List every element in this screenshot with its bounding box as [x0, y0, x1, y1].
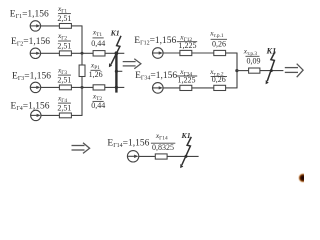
short-circuit lightning arrow K1 — [182, 137, 192, 165]
svg-text:1,225: 1,225 — [179, 41, 197, 50]
EMF source E_Г2 (circle with arrow) — [30, 48, 40, 58]
EMF source E_Г3 (circle with arrow) — [30, 82, 40, 92]
decorative blob bottom-right — [299, 174, 308, 183]
wire rail (middle circuit) — [236, 53, 238, 88]
wire — [105, 86, 125, 88]
resistor x_Г14 — [155, 154, 167, 159]
wire — [41, 114, 83, 116]
wire — [260, 70, 284, 72]
svg-text:EГ3=1,156: EГ3=1,156 — [12, 72, 51, 83]
short-circuit lightning arrow K1 — [111, 36, 121, 65]
svg-text:EГ1=1,156: EГ1=1,156 — [10, 10, 49, 21]
svg-text:EГ12=1,156: EГ12=1,156 — [134, 36, 176, 47]
node on middle rail — [235, 69, 238, 72]
resistor x_Г3 — [59, 85, 71, 90]
EMF source E_Г4 (circle with arrow) — [31, 110, 41, 120]
resistor x_т.р.2 — [214, 85, 226, 90]
svg-text:2,51: 2,51 — [57, 76, 71, 85]
wire — [41, 25, 60, 27]
fault bus K1 (thick) — [115, 52, 117, 93]
EMF source E_Г14 (circle with arrow) — [127, 151, 138, 162]
equivalence arrow 2 — [285, 64, 303, 77]
svg-text:1,26: 1,26 — [89, 70, 103, 79]
svg-text:0,44: 0,44 — [91, 101, 105, 110]
resistor x_т.р.1 — [214, 50, 226, 55]
resistor x_Г12 — [180, 50, 192, 55]
svg-text:xт.р.1: xт.р.1 — [209, 28, 224, 39]
wire — [192, 52, 214, 54]
svg-text:1,225: 1,225 — [178, 76, 196, 85]
node: section 1 junction — [81, 52, 84, 55]
short-circuit lightning arrow K1 — [267, 52, 275, 82]
svg-text:0,8325: 0,8325 — [152, 143, 174, 152]
reactor x_Р1 (vertical) — [79, 65, 85, 77]
resistor x_Г34 — [180, 85, 192, 90]
wire — [41, 86, 93, 88]
svg-text:K1: K1 — [181, 131, 191, 140]
wire — [105, 52, 124, 54]
node at fault point — [270, 69, 273, 72]
svg-text:xГ4: xГ4 — [57, 93, 67, 104]
node on bus at x_Т2 branch — [115, 86, 118, 89]
svg-text:0,26: 0,26 — [212, 75, 226, 84]
EMF source E_Г34 (circle with arrow) — [153, 83, 164, 94]
equivalence arrow 3 — [72, 143, 90, 154]
svg-text:2,51: 2,51 — [57, 14, 71, 23]
svg-text:EГ34=1,156: EГ34=1,156 — [135, 71, 177, 82]
svg-text:xГ14: xГ14 — [155, 131, 168, 142]
svg-text:0,09: 0,09 — [247, 56, 261, 65]
svg-text:EГ4=1,156: EГ4=1,156 — [11, 101, 50, 112]
svg-text:xТ1: xТ1 — [92, 28, 103, 39]
node on bus top — [115, 51, 119, 55]
svg-text:xГ1: xГ1 — [57, 4, 67, 15]
transformer x_Т2 — [93, 85, 105, 90]
wire — [226, 87, 238, 89]
wire — [163, 87, 180, 89]
node at fault point — [185, 155, 188, 158]
wire — [163, 52, 180, 54]
wire rail to reactor — [81, 53, 83, 65]
transformer x_Т1 — [93, 51, 105, 56]
svg-text:xГ2: xГ2 — [57, 31, 67, 42]
wire — [226, 52, 238, 54]
resistor x_Г2 — [59, 51, 71, 56]
svg-text:EГ2=1,156: EГ2=1,156 — [11, 37, 50, 48]
node on bus middle + stub wire — [116, 70, 122, 72]
EMF source E_Г1 (circle with arrow) — [30, 21, 40, 31]
wire — [41, 52, 94, 54]
wire rail segment — [81, 87, 83, 115]
equivalence arrow 1 — [123, 59, 141, 69]
svg-text:2,51: 2,51 — [57, 104, 71, 113]
svg-text:2,51: 2,51 — [57, 41, 71, 50]
resistor x_т.р.3 — [249, 68, 260, 73]
EMF source E_Г12 (circle with arrow) — [153, 48, 164, 59]
wire — [139, 155, 156, 157]
wire — [237, 70, 249, 72]
svg-text:0,44: 0,44 — [91, 39, 105, 48]
wire — [71, 25, 82, 27]
resistor x_Г4 — [59, 113, 71, 118]
wire rail segment — [81, 26, 83, 53]
svg-text:xГ3: xГ3 — [57, 65, 67, 76]
wire — [192, 87, 214, 89]
wire — [167, 155, 199, 157]
svg-text:EГ14=1,156: EГ14=1,156 — [107, 139, 149, 150]
wire rail from reactor — [81, 77, 83, 88]
svg-text:0,26: 0,26 — [212, 40, 226, 49]
resistor x_Г1 — [59, 24, 71, 29]
svg-text:K1: K1 — [110, 29, 120, 38]
node: section 2 junction — [81, 86, 84, 89]
